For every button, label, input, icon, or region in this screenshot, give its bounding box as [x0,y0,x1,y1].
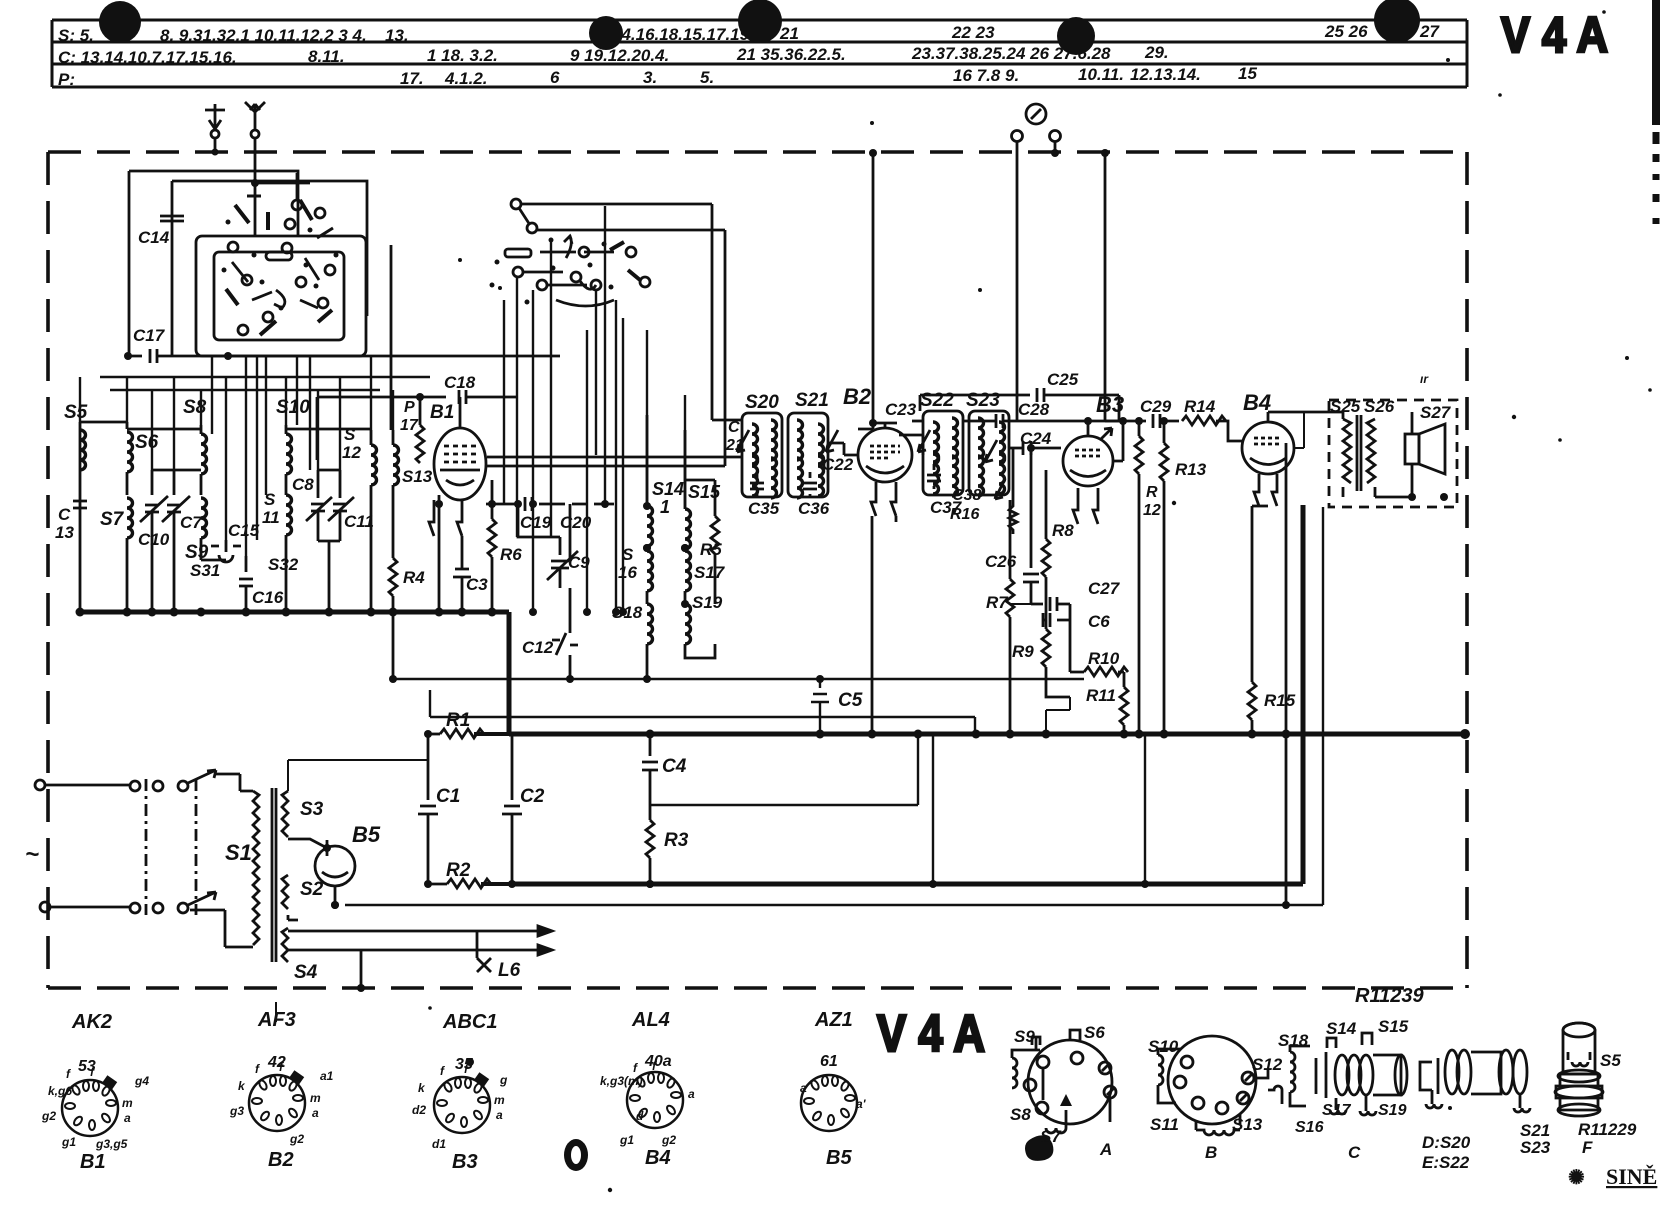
svg-text:C28: C28 [1018,400,1050,419]
svg-text:C29: C29 [1140,397,1172,416]
svg-text:C35: C35 [748,499,780,518]
svg-text:R10: R10 [1088,649,1120,668]
svg-text:R8: R8 [1052,521,1074,540]
svg-text:S2: S2 [300,879,324,900]
svg-text:g3,g5: g3,g5 [95,1137,128,1151]
svg-text:C22: C22 [822,455,854,474]
svg-text:a: a [124,1111,131,1125]
svg-text:S10: S10 [1148,1037,1179,1056]
svg-text:a: a [688,1087,695,1101]
svg-text:m: m [310,1091,321,1105]
svg-text:S14: S14 [652,479,684,499]
svg-text:SINĚ: SINĚ [1606,1164,1657,1189]
svg-text:g2: g2 [661,1133,676,1147]
svg-text:C: C [1348,1143,1361,1162]
svg-text:a: a [800,1081,807,1095]
svg-text:5.: 5. [700,68,714,87]
svg-text:12: 12 [1143,502,1161,519]
svg-text:g2: g2 [41,1109,56,1123]
svg-text:27: 27 [1419,22,1440,41]
svg-text:8. 9.31.32.1 10.11.12.2 3 4.: 8. 9.31.32.1 10.11.12.2 3 4. [160,26,367,45]
svg-text:21: 21 [779,24,799,43]
svg-text:P:: P: [58,70,75,89]
svg-text:S8: S8 [183,397,207,418]
svg-text:B4: B4 [1243,390,1271,415]
svg-text:A: A [1099,1140,1112,1159]
svg-text:1: 1 [660,497,670,517]
svg-text:d: d [636,1109,644,1123]
svg-text:R2: R2 [446,860,471,881]
svg-text:C27: C27 [1088,579,1121,598]
svg-text:R16: R16 [950,506,979,523]
svg-text:S13: S13 [1232,1115,1263,1134]
svg-text:12: 12 [342,443,361,462]
svg-text:k,g6: k,g6 [48,1084,72,1098]
svg-text:S9: S9 [185,542,209,563]
svg-text:m: m [494,1093,505,1107]
svg-text:B5: B5 [352,822,381,847]
svg-text:AZ1: AZ1 [814,1009,853,1031]
svg-text:S22: S22 [920,390,954,411]
svg-text:17.: 17. [400,69,424,88]
svg-text:m: m [122,1096,133,1110]
svg-text:✺: ✺ [1568,1167,1585,1189]
svg-text:C26: C26 [985,552,1017,571]
svg-text:R14: R14 [1184,397,1216,416]
svg-text:S7: S7 [100,509,125,530]
svg-text:S7: S7 [1040,1127,1062,1146]
svg-text:R7: R7 [986,593,1009,612]
svg-text:P: P [404,399,415,416]
svg-text:S1: S1 [225,840,252,865]
svg-text:d2: d2 [412,1103,426,1117]
svg-text:S21: S21 [795,390,829,411]
svg-text:25 26: 25 26 [1324,22,1368,41]
svg-text:C3: C3 [466,575,488,594]
svg-text:C17: C17 [133,326,166,345]
svg-text:E:S22: E:S22 [1422,1153,1470,1172]
svg-text:R6: R6 [500,545,522,564]
svg-text:R3: R3 [664,830,689,851]
svg-text:S25: S25 [1330,397,1361,416]
svg-text:C7: C7 [180,513,203,532]
svg-text:C: C [728,419,740,436]
svg-text:17: 17 [400,417,419,434]
svg-text:4.1.2.: 4.1.2. [444,69,488,88]
svg-text:S23: S23 [1520,1138,1551,1157]
svg-text:S15: S15 [688,482,721,502]
svg-text:S31: S31 [190,561,220,580]
svg-text:S: 5.: S: 5. [58,26,94,45]
svg-text:12.13.14.: 12.13.14. [1130,65,1201,84]
svg-text:R: R [1146,484,1158,501]
svg-text:16 7.8 9.: 16 7.8 9. [953,66,1019,85]
svg-text:S4: S4 [294,962,318,983]
svg-text:B1: B1 [80,1151,106,1173]
svg-text:C1: C1 [436,786,460,807]
svg-text:R15: R15 [1264,691,1296,710]
svg-text:R9: R9 [1012,642,1034,661]
svg-text:g3: g3 [229,1104,244,1118]
svg-text:a': a' [856,1097,867,1111]
svg-text:S19: S19 [692,593,723,612]
svg-text:S10: S10 [276,397,310,418]
svg-text:C5: C5 [838,690,863,711]
svg-text:S19: S19 [1378,1102,1407,1119]
svg-text:V 4 A: V 4 A [1501,7,1608,63]
svg-text:S16: S16 [1295,1119,1324,1136]
svg-text:S20: S20 [745,392,779,413]
svg-text:C: C [58,505,71,524]
svg-text:B5: B5 [826,1147,852,1169]
svg-text:C4: C4 [662,756,687,777]
svg-text:R1: R1 [446,710,470,731]
svg-text:~: ~ [25,841,39,868]
svg-text:1 18. 3.2.: 1 18. 3.2. [427,46,498,65]
svg-text:9 19.12.20.4.: 9 19.12.20.4. [570,46,669,65]
svg-text:R13: R13 [1175,460,1207,479]
svg-text:a1: a1 [320,1069,334,1083]
svg-text:C11: C11 [344,512,374,531]
svg-text:S8: S8 [1010,1105,1031,1124]
svg-text:S17: S17 [694,563,726,582]
svg-text:22 23: 22 23 [951,23,995,42]
svg-text:29.: 29. [1144,43,1169,62]
svg-text:C15: C15 [228,521,260,540]
svg-text:a: a [312,1106,319,1120]
svg-text:C25: C25 [1047,370,1079,389]
svg-text:B2: B2 [843,384,872,409]
svg-text:S9: S9 [1014,1027,1035,1046]
svg-text:14.16.18.15.17.19: 14.16.18.15.17.19 [612,25,750,44]
svg-text:15: 15 [1238,64,1257,83]
svg-text:C16: C16 [252,588,284,607]
svg-text:C36: C36 [798,499,830,518]
svg-text:C6: C6 [1088,612,1110,631]
svg-text:S27: S27 [1420,403,1452,422]
svg-text:40a: 40a [644,1053,672,1070]
svg-text:42: 42 [267,1054,286,1071]
svg-text:21 35.36.22.5.: 21 35.36.22.5. [736,45,846,64]
svg-text:g: g [499,1073,508,1087]
svg-text:F: F [1582,1138,1593,1157]
svg-text:V 4 A: V 4 A [877,1005,985,1063]
svg-text:g1: g1 [61,1135,76,1149]
svg-text:S14: S14 [1326,1019,1357,1038]
svg-text:a: a [496,1108,503,1122]
svg-text:C14: C14 [138,228,170,247]
svg-text:S13: S13 [402,467,433,486]
svg-text:B3: B3 [452,1151,478,1173]
svg-text:g2: g2 [289,1132,304,1146]
svg-text:C12: C12 [522,638,554,657]
svg-text:S26: S26 [1364,397,1395,416]
svg-text:S6: S6 [1084,1023,1105,1042]
svg-text:3.: 3. [643,68,657,87]
svg-text:C: 13.14.10.7.17.15.16.: C: 13.14.10.7.17.15.16. [58,48,237,67]
svg-text:S17: S17 [1322,1102,1352,1119]
svg-text:B1: B1 [430,402,454,423]
svg-text:ır: ır [1420,372,1429,386]
svg-text:S32: S32 [268,555,299,574]
svg-text:R11239: R11239 [1355,985,1424,1007]
svg-text:S5: S5 [1600,1051,1621,1070]
svg-text:S3: S3 [300,799,324,820]
svg-text:16: 16 [618,563,637,582]
svg-text:S12: S12 [1252,1055,1283,1074]
svg-text:AL4: AL4 [631,1009,670,1031]
svg-text:C38: C38 [952,487,981,504]
svg-text:R5: R5 [700,540,722,559]
svg-text:B4: B4 [645,1147,671,1169]
svg-text:8.11.: 8.11. [308,47,345,66]
svg-text:61: 61 [820,1053,838,1070]
svg-text:D:S20: D:S20 [1422,1133,1471,1152]
svg-text:AK2: AK2 [71,1011,112,1033]
svg-text:13: 13 [55,523,74,542]
svg-text:R11: R11 [1086,686,1116,705]
svg-text:g1: g1 [619,1133,634,1147]
svg-text:13.: 13. [385,26,409,45]
svg-text:C10: C10 [138,530,170,549]
svg-text:S15: S15 [1378,1017,1409,1036]
svg-text:S6: S6 [135,432,159,453]
svg-text:k,g3(m): k,g3(m) [600,1074,643,1088]
svg-text:B3: B3 [1096,392,1124,417]
svg-text:S23: S23 [966,390,1000,411]
svg-text:C2: C2 [520,786,545,807]
svg-text:C24: C24 [1020,429,1052,448]
svg-text:C18: C18 [444,373,476,392]
svg-text:C23: C23 [885,400,917,419]
svg-text:11: 11 [262,508,280,527]
svg-text:C19: C19 [520,513,552,532]
svg-text:ABC1: ABC1 [442,1011,497,1033]
svg-text:21: 21 [725,437,744,454]
svg-text:g4: g4 [134,1074,149,1088]
svg-text:S18: S18 [1278,1031,1309,1050]
svg-text:S: S [344,425,356,444]
svg-text:10.11.: 10.11. [1078,65,1124,84]
svg-text:6: 6 [550,68,560,87]
svg-text:d1: d1 [432,1137,446,1151]
svg-text:B: B [1205,1143,1217,1162]
svg-text:R11229: R11229 [1578,1120,1637,1139]
svg-text:B2: B2 [268,1149,294,1171]
svg-text:S5: S5 [64,402,88,423]
svg-text:S11: S11 [1150,1115,1179,1134]
svg-text:C8: C8 [292,475,314,494]
svg-text:R4: R4 [403,568,425,587]
svg-text:L6: L6 [498,960,521,981]
